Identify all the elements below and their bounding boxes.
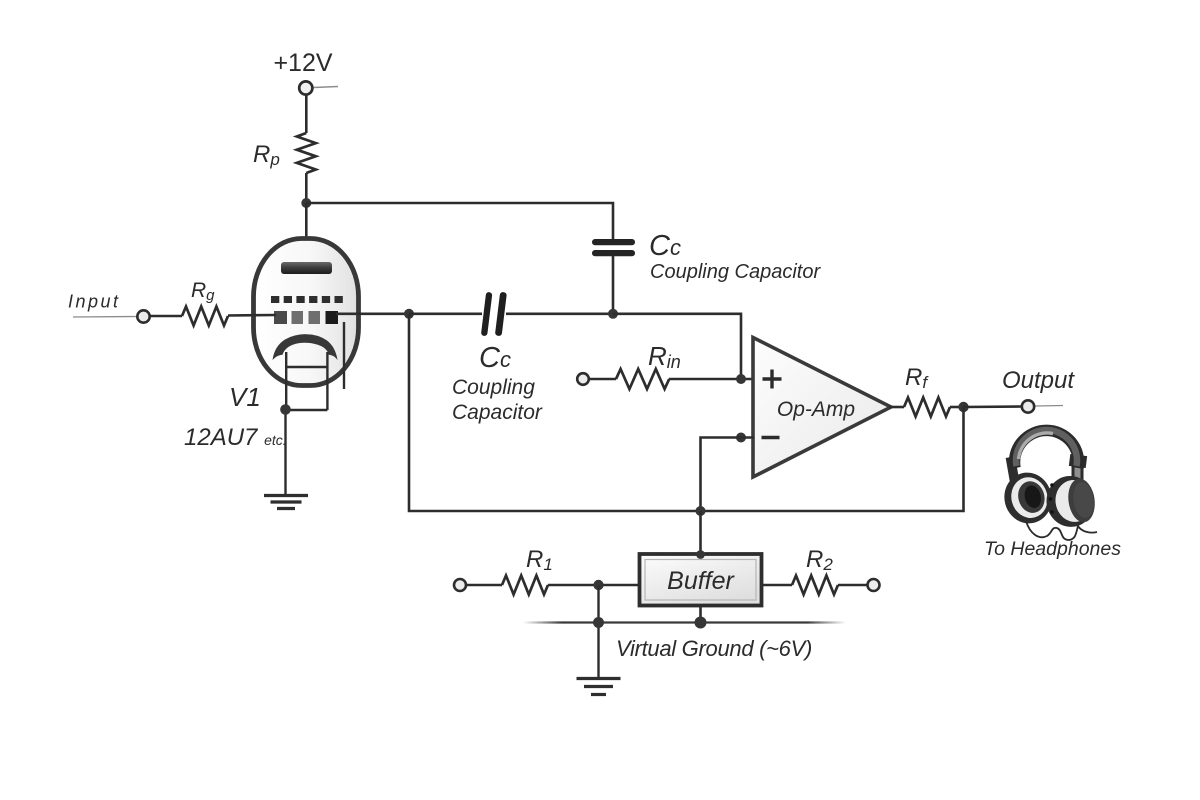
input terminal xyxy=(73,310,150,322)
pin minus xyxy=(762,436,780,439)
wire plate lead into tube xyxy=(305,203,308,266)
svg-text:Coupling Capacitor: Coupling Capacitor xyxy=(650,261,821,283)
+12V supply terminal xyxy=(299,81,338,94)
capacitor Cc top xyxy=(592,239,635,256)
node cathode xyxy=(280,404,291,415)
node B junction dot xyxy=(608,309,618,319)
buffer U2 xyxy=(640,554,762,606)
ground (cathode) xyxy=(264,496,308,509)
terminal R2 xyxy=(868,579,880,591)
node virtual ground center xyxy=(695,617,707,629)
wire grid to node A xyxy=(336,312,409,315)
node virtual ground left xyxy=(593,617,604,628)
svg-text:Output: Output xyxy=(1002,367,1075,394)
wire buffer to R2 xyxy=(762,584,793,587)
resistor Rin xyxy=(616,369,669,389)
wire node B to op-amp plus xyxy=(613,314,741,379)
terminal Rin xyxy=(577,373,589,385)
svg-text:Op-Amp: Op-Amp xyxy=(777,398,855,421)
capacitor Cc series xyxy=(481,292,507,337)
tube V1 xyxy=(254,239,359,411)
svg-text:V1: V1 xyxy=(229,382,261,412)
node buffer top xyxy=(696,550,705,559)
ground (virtual) xyxy=(577,679,621,695)
label Coupling Capacitor series xyxy=(452,376,543,424)
wire buffer bottom to virtual ground xyxy=(699,605,702,624)
wire feedback to buffer xyxy=(699,511,702,556)
terminal R1 xyxy=(454,579,466,591)
node feedback junction xyxy=(696,506,706,516)
resistor R2 xyxy=(792,576,838,595)
svg-text:+12V: +12V xyxy=(273,49,332,77)
resistor Rg xyxy=(182,307,228,326)
wire Rg to tube grid xyxy=(228,314,276,317)
node op-amp plus input xyxy=(736,374,746,384)
resistor R1 xyxy=(502,576,548,595)
resistor Rf xyxy=(904,398,950,417)
op-amp U1 xyxy=(753,338,891,478)
wire +12V to Rp xyxy=(305,95,308,134)
wire series Cc to node B xyxy=(506,312,613,315)
node A junction dot xyxy=(404,309,414,319)
headphones icon xyxy=(999,430,1098,540)
svg-text:Rin: Rin xyxy=(648,341,681,372)
wire op-amp output to Rf xyxy=(889,406,904,409)
output terminal xyxy=(1022,400,1063,412)
wire Rp to plate node xyxy=(305,173,308,203)
svg-text:To Headphones: To Headphones xyxy=(984,538,1121,560)
wire input terminal to Rg xyxy=(150,315,182,318)
wire minus input to feedback xyxy=(701,438,755,512)
node output junction xyxy=(958,402,968,412)
svg-text:Rg: Rg xyxy=(191,279,215,304)
node op-amp minus input xyxy=(736,433,746,443)
svg-text:Capacitor: Capacitor xyxy=(452,401,543,424)
svg-text:Cc: Cc xyxy=(649,230,681,262)
svg-text:Input: Input xyxy=(68,292,121,312)
net virtual ground rail xyxy=(523,621,846,623)
svg-text:R2: R2 xyxy=(806,546,833,574)
wire cathode to ground xyxy=(284,410,286,494)
wire feedback net xyxy=(409,314,964,511)
svg-text:Cc: Cc xyxy=(479,342,511,374)
wire R2 to terminal xyxy=(838,584,867,587)
wire R1 to buffer xyxy=(548,584,640,587)
node plate junction xyxy=(301,198,311,208)
svg-text:Coupling: Coupling xyxy=(452,376,535,399)
svg-text:R1: R1 xyxy=(526,546,553,574)
wire node A to series Cc xyxy=(409,312,482,315)
svg-text:Buffer: Buffer xyxy=(667,567,735,595)
wire terminal to Rin xyxy=(589,378,616,381)
wire R1 junction to ground xyxy=(597,585,599,677)
resistor Rp xyxy=(297,133,316,173)
wire plate node to Cc top xyxy=(306,203,613,240)
wire output node to terminal xyxy=(964,405,1022,408)
wire Rf to output node xyxy=(950,406,963,409)
wire Cc top to node B xyxy=(612,256,615,314)
node R1 junction xyxy=(593,580,603,590)
svg-text:Rp: Rp xyxy=(253,141,280,169)
svg-text:12AU7 etc.: 12AU7 etc. xyxy=(184,424,287,451)
pin plus xyxy=(763,370,782,389)
svg-text:Virtual Ground (~6V): Virtual Ground (~6V) xyxy=(616,636,812,661)
wire Rin to op-amp plus input xyxy=(669,378,754,381)
wire terminal to R1 xyxy=(466,584,502,587)
svg-text:Rf: Rf xyxy=(905,364,929,392)
